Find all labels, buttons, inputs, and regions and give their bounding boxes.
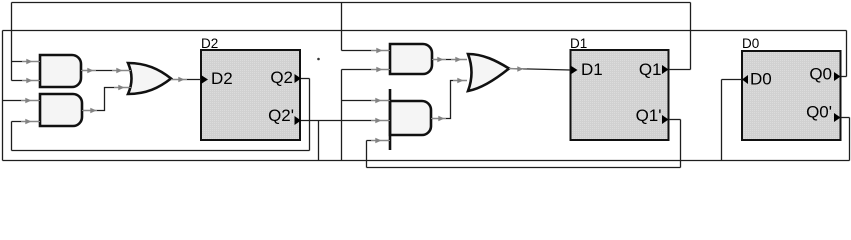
svg-text:Q0': Q0' (806, 103, 832, 122)
svg-text:D0: D0 (750, 70, 772, 89)
svg-text:Q2': Q2' (268, 106, 294, 125)
svg-text:D0: D0 (742, 36, 759, 51)
svg-text:D1: D1 (581, 60, 603, 79)
svg-text:D1: D1 (570, 36, 587, 51)
svg-text:Q1': Q1' (636, 106, 662, 125)
svg-text:Q1: Q1 (639, 60, 662, 79)
svg-text:D2: D2 (201, 36, 218, 51)
svg-text:Q0: Q0 (809, 65, 832, 84)
svg-text:D2: D2 (211, 69, 233, 88)
svg-text:Q2: Q2 (270, 68, 293, 87)
